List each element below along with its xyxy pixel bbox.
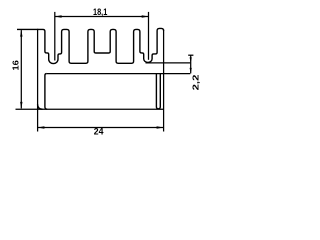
svg-text:16: 16 xyxy=(10,60,20,71)
svg-text:24: 24 xyxy=(94,127,104,137)
svg-text:18,1: 18,1 xyxy=(93,7,107,17)
svg-text:2,2: 2,2 xyxy=(190,74,200,90)
